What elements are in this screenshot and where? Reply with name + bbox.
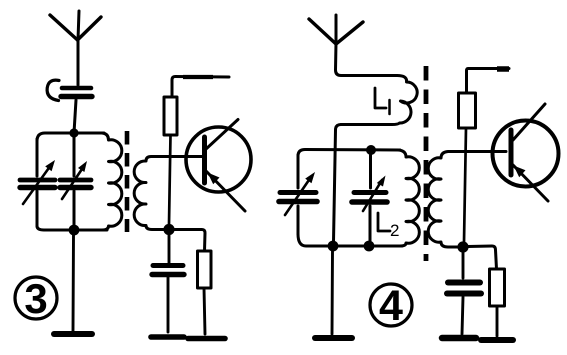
middle branch wire (right tank)	[369, 155, 373, 242]
variable capacitor C3 plates	[279, 193, 317, 202]
coil L2 (transformer primary right)	[398, 150, 419, 246]
transistor Q1 base bar	[202, 137, 207, 183]
wire capacitor to ground (right)	[462, 297, 463, 334]
node bottom dot	[69, 225, 80, 236]
ground (right tank)	[315, 335, 352, 341]
wire node to R2	[174, 230, 205, 252]
left branch wire	[36, 139, 39, 226]
transistor Q1 emitter arrow	[208, 173, 220, 185]
svg-text:4: 4	[379, 282, 403, 330]
wire R2 to ground	[204, 288, 205, 334]
transistor Q2 circle	[493, 121, 559, 187]
ground (tank left)	[54, 331, 92, 337]
emitter node dot	[163, 224, 174, 235]
wire R4 to ground	[496, 306, 499, 336]
supply rail (right circuit)	[467, 69, 510, 94]
variable capacitor C3 arrow	[285, 172, 315, 215]
label L2	[378, 213, 399, 240]
transistor Q2 base bar	[509, 130, 514, 175]
transistor Q2 emitter	[513, 165, 548, 201]
figure label 3 circle	[15, 277, 57, 319]
antenna (left)	[50, 11, 101, 40]
figure label 4 circle	[370, 284, 412, 326]
tank bottom wire	[37, 226, 107, 230]
wire antenna feed to capacitor C	[77, 39, 80, 85]
transformer core (left, dashed)	[125, 131, 130, 232]
center branch wire	[73, 138, 76, 225]
variable capacitor C1 arrow	[23, 160, 55, 204]
transformer secondary (right) + base wire + bottom lead	[428, 152, 506, 248]
wire tank to ground (right)	[331, 251, 334, 334]
node dot top (right)	[366, 145, 376, 155]
node dot bottom feed	[328, 241, 339, 252]
wire R1 down through base wire to emitter node	[169, 135, 171, 224]
supply rail thick overlap	[183, 75, 213, 79]
ground (under R2)	[188, 336, 225, 342]
wire R3 down through base wire to emitter node	[464, 128, 466, 242]
emitter node dot (right)	[457, 241, 468, 252]
wire to ground (tank)	[72, 235, 75, 331]
variable capacitor C2 arrow	[62, 161, 87, 199]
ground (under bypass cap right)	[442, 335, 476, 342]
transistor Q2 emitter arrow	[514, 166, 526, 178]
variable capacitor C2 plates	[60, 180, 91, 188]
wire L1 down to tank (antenna feed)	[334, 125, 342, 243]
transformer secondary + base wire + bottom lead (left)	[134, 157, 202, 230]
transformer core (right, dashed)	[424, 66, 429, 261]
resistor R3 (right bias)	[459, 93, 476, 128]
tank bottom wire (right)	[298, 234, 402, 246]
wire node to bypass capacitor	[168, 235, 171, 263]
wire capacitor to ground	[167, 277, 170, 332]
label L1	[375, 88, 390, 114]
wire node to bypass capacitor (right)	[462, 252, 465, 278]
capacitor C	[61, 88, 92, 97]
ground (under R4)	[481, 337, 513, 343]
transformer primary coil (left)	[102, 133, 122, 230]
coil L1	[341, 76, 417, 125]
wire antenna to L1	[336, 43, 398, 76]
bypass capacitor (left)	[152, 266, 184, 275]
left branch wire (right tank)	[297, 155, 300, 234]
ground (under bypass cap)	[151, 334, 184, 340]
node dot bottom cap branch	[364, 241, 375, 252]
tank top wire (right)	[298, 150, 400, 157]
node top dot	[69, 128, 78, 137]
wire node to R4	[468, 246, 497, 269]
tank top wire	[37, 133, 104, 141]
transistor Q2 collector	[513, 104, 545, 140]
wire C to tank top node	[74, 100, 76, 133]
transistor Q1 circle	[186, 127, 251, 192]
bypass capacitor (right)	[447, 283, 481, 294]
svg-text:3: 3	[24, 275, 47, 322]
transistor Q1 collector	[206, 120, 238, 150]
antenna (right)	[309, 15, 363, 44]
supply rail thick stub	[497, 66, 509, 72]
resistor R1 (base bias)	[164, 97, 177, 135]
variable capacitor C4 arrow	[363, 176, 386, 212]
supply rail (left circuit)	[172, 77, 229, 98]
variable capacitor C1 plates	[20, 180, 55, 188]
variable capacitor C4 plates	[352, 193, 387, 203]
label C	[47, 80, 59, 100]
resistor R2 (emitter)	[198, 251, 212, 288]
svg-text:2: 2	[390, 221, 399, 240]
transistor Q1 emitter	[206, 171, 245, 211]
resistor R4 (right emitter)	[490, 269, 505, 306]
